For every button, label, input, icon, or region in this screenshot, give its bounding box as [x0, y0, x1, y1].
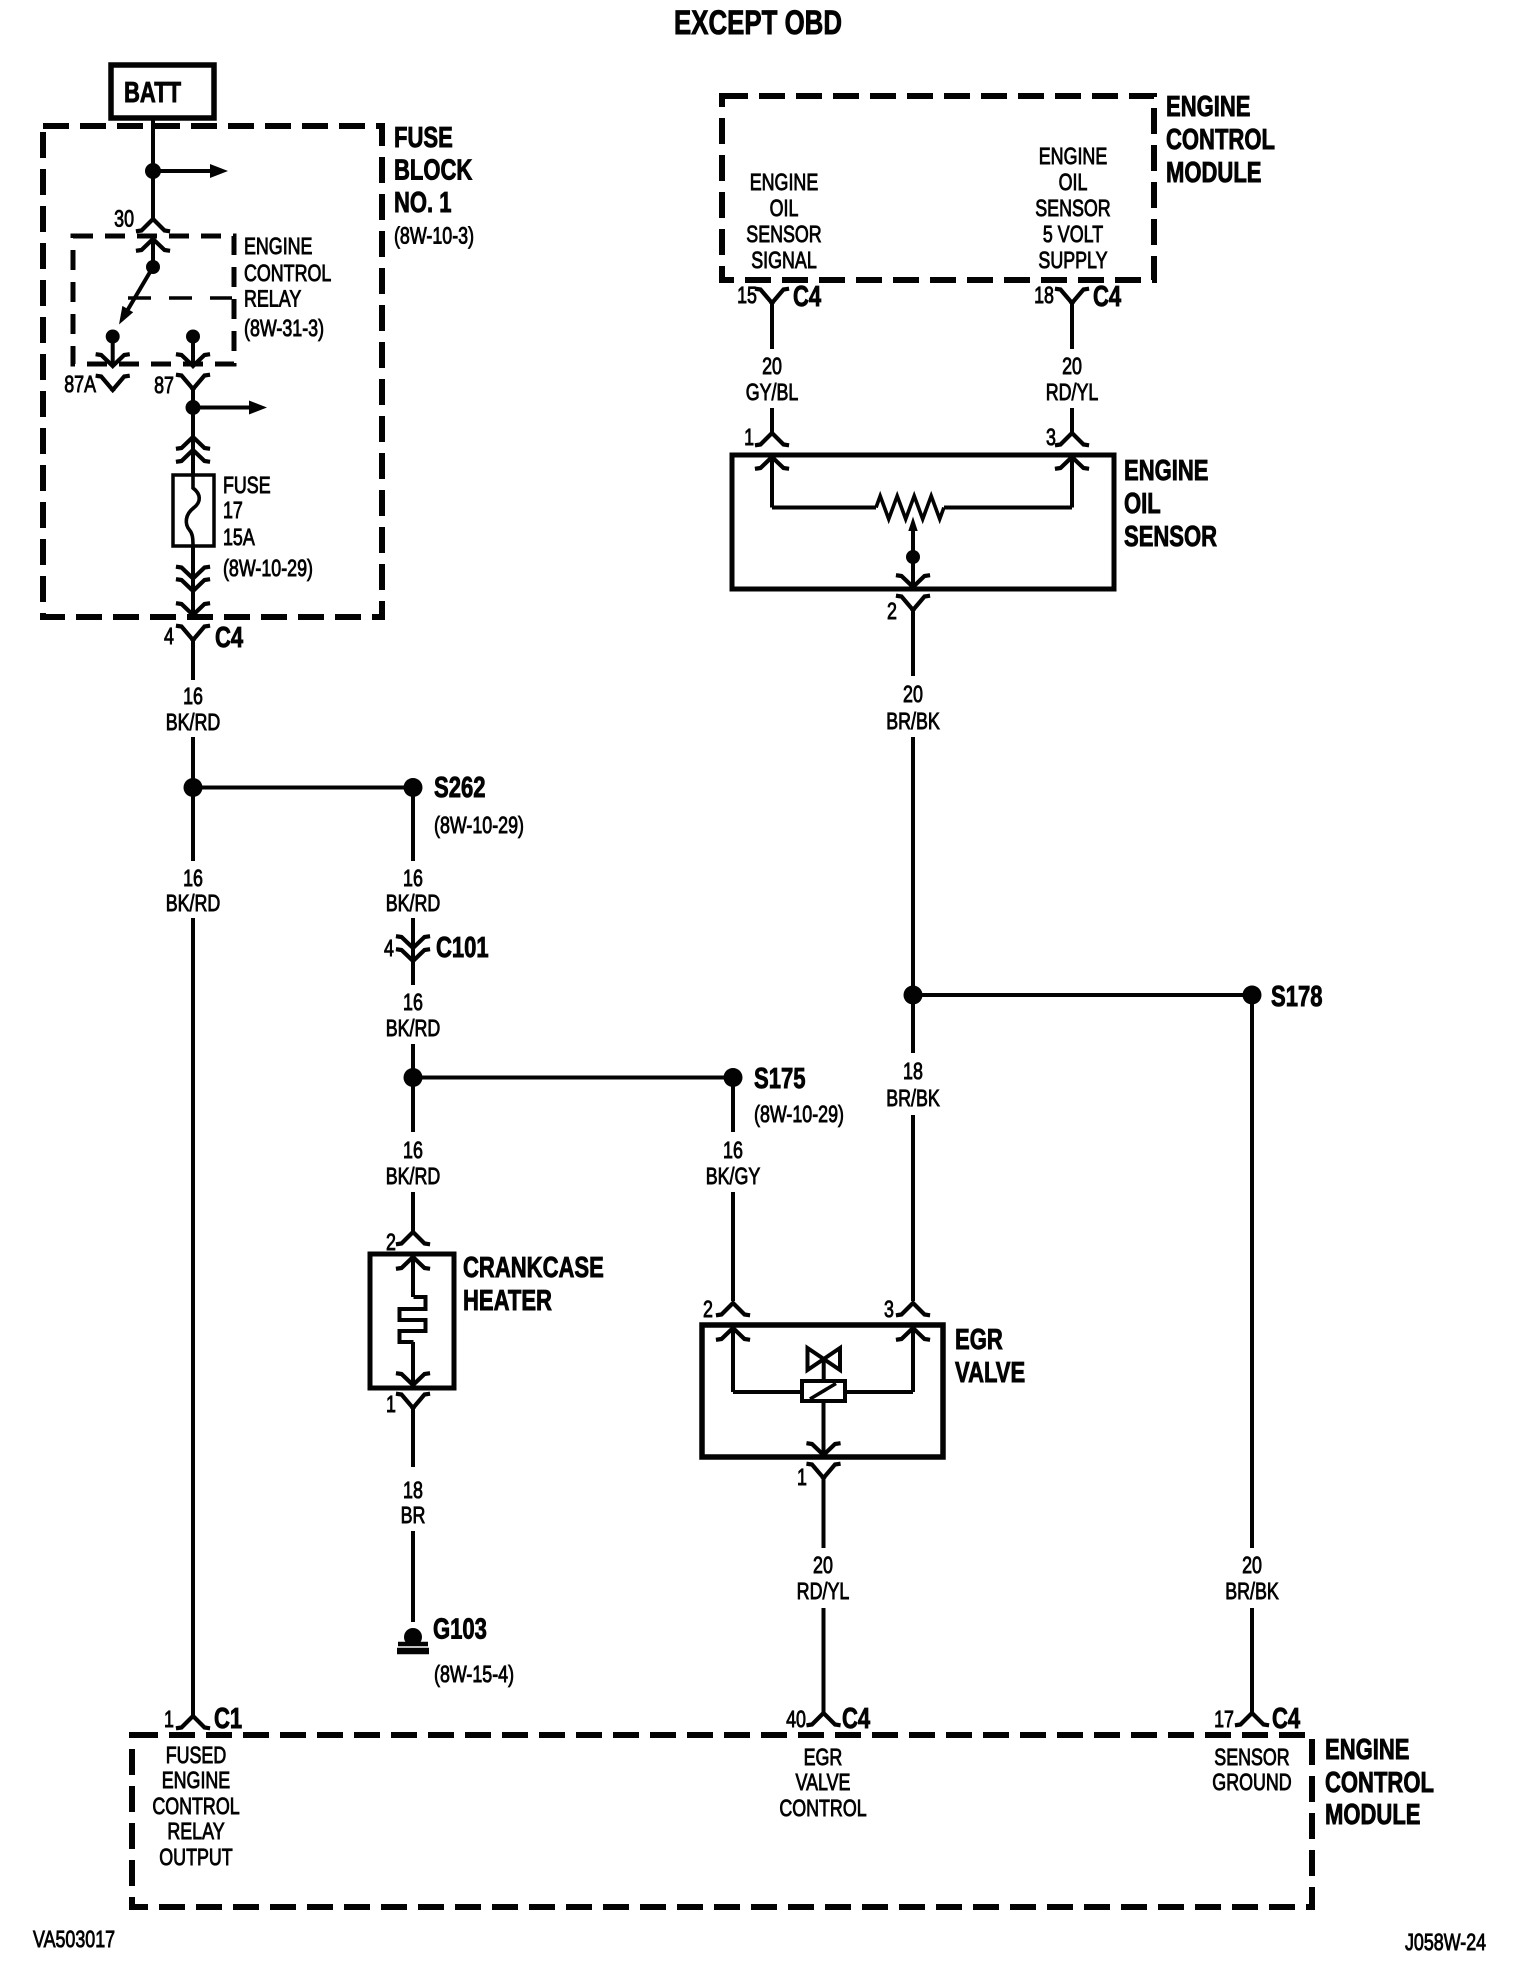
splice S262 wire: [193, 786, 413, 790]
fuse block no.1 label: [394, 122, 474, 249]
svg-text:ENGINE: ENGINE: [1124, 455, 1209, 487]
svg-text:G103: G103: [433, 1614, 487, 1646]
svg-text:GROUND: GROUND: [1212, 1769, 1291, 1795]
svg-text:C101: C101: [436, 932, 489, 964]
svg-text:OUTPUT: OUTPUT: [159, 1844, 232, 1870]
engine control module dashed box (bottom): [132, 1735, 1312, 1907]
svg-text:C1: C1: [214, 1703, 242, 1735]
svg-text:MODULE: MODULE: [1166, 157, 1262, 189]
svg-text:5 VOLT: 5 VOLT: [1043, 221, 1103, 247]
engine control module label (bottom): [1325, 1734, 1434, 1831]
svg-text:BK/RD: BK/RD: [386, 1015, 441, 1041]
svg-text:BR: BR: [401, 1502, 426, 1528]
svg-text:15: 15: [737, 282, 757, 308]
relay pin 87 wire and connector: [178, 337, 208, 390]
svg-text:SUPPLY: SUPPLY: [1038, 247, 1107, 273]
relay pin 87A wire and connector: [98, 337, 128, 391]
junction node below pin 87: [186, 400, 201, 415]
svg-text:BR/BK: BR/BK: [1225, 1578, 1279, 1604]
crankcase heater box: [370, 1254, 454, 1388]
wire fuse to connector C4: [191, 546, 195, 614]
EGR solenoid coil: [802, 1381, 845, 1401]
svg-text:S262: S262: [434, 772, 485, 804]
wire S175 to EGR pin 2: [731, 1078, 735, 1302]
wire to ground G103: [411, 1531, 415, 1622]
relay switch blade: [119, 267, 153, 325]
EGR pin 1 connector: [809, 1444, 839, 1549]
fuse 17 element: [173, 475, 214, 546]
svg-text:16: 16: [403, 1137, 423, 1163]
splice S262 node left: [184, 778, 203, 797]
svg-text:CONTROL: CONTROL: [1325, 1767, 1434, 1799]
wire label 20 BR/BK: [886, 681, 940, 734]
wire EGR pin 1 to connector C4 pin 40: [822, 1608, 826, 1713]
connector C4 pin 40: [809, 1713, 839, 1725]
svg-text:(8W-10-29): (8W-10-29): [223, 555, 313, 581]
EGR valve box: [702, 1325, 943, 1457]
wiper node: [906, 550, 920, 564]
svg-text:2: 2: [386, 1229, 396, 1255]
svg-text:BK/RD: BK/RD: [166, 709, 221, 735]
svg-text:18: 18: [903, 1058, 923, 1084]
ECM pin 15 connector C4: [757, 289, 787, 349]
wire label 20 BR/BK: [1225, 1552, 1279, 1604]
svg-text:RELAY: RELAY: [167, 1818, 224, 1844]
wire label 16 BK/RD: [166, 865, 221, 916]
svg-text:C4: C4: [793, 281, 821, 313]
wire label 20 RD/YL: [797, 1552, 850, 1604]
svg-text:C4: C4: [215, 622, 243, 654]
svg-text:ENGINE: ENGINE: [1166, 91, 1251, 123]
svg-text:J058W-24: J058W-24: [1405, 1929, 1486, 1955]
potentiometer resistor element: [876, 496, 944, 519]
svg-text:OIL: OIL: [1059, 169, 1088, 195]
svg-text:BK/RD: BK/RD: [386, 890, 441, 916]
heater pin 2 connector: [398, 1232, 428, 1297]
splice S175 node left: [404, 1068, 423, 1087]
sensor ground label: [1212, 1744, 1291, 1795]
EGR valve label: [955, 1324, 1025, 1389]
wire BATT to relay pin 30: [151, 119, 155, 220]
relay coil actuation dashed link: [128, 296, 232, 300]
svg-text:FUSED: FUSED: [166, 1742, 227, 1768]
sensor internal wire pin1 side: [772, 506, 876, 510]
svg-text:VALVE: VALVE: [955, 1357, 1025, 1389]
svg-text:EGR: EGR: [804, 1744, 843, 1770]
svg-text:VALVE: VALVE: [796, 1769, 851, 1795]
oil sensor pin 1 connector: [757, 433, 787, 508]
EGR internal wires to solenoid: [733, 1390, 913, 1394]
svg-text:SENSOR: SENSOR: [1124, 521, 1217, 553]
svg-text:ENGINE: ENGINE: [244, 233, 312, 259]
svg-text:EGR: EGR: [955, 1324, 1003, 1356]
fuse block no.1 dashed box: [43, 126, 382, 617]
svg-text:(8W-10-29): (8W-10-29): [434, 812, 524, 838]
svg-text:SENSOR: SENSOR: [1214, 1744, 1289, 1770]
svg-text:18: 18: [403, 1477, 423, 1503]
splice S262 node right: [404, 778, 423, 797]
splice S178 node right: [1243, 986, 1262, 1005]
svg-text:40: 40: [786, 1706, 806, 1732]
connector C101 double chevron: [398, 937, 428, 962]
wire ECM 15 to oil sensor pin 1: [770, 408, 774, 433]
relay pin 87 node: [186, 330, 200, 344]
wire relay 87 to fuse: [191, 389, 195, 475]
svg-text:BK/GY: BK/GY: [706, 1163, 761, 1189]
svg-text:RD/YL: RD/YL: [1046, 379, 1099, 405]
wire label 16 BK/RD: [166, 683, 221, 735]
splice S175 label: [754, 1063, 844, 1127]
feed arrow to other circuits: [153, 164, 228, 178]
sensor internal wire pin3 side: [944, 506, 1072, 510]
svg-text:ENGINE: ENGINE: [750, 169, 818, 195]
wire label 20 RD/YL: [1046, 353, 1099, 405]
connector C4 pin 17: [1237, 1713, 1267, 1725]
svg-text:4: 4: [384, 935, 394, 961]
wire label 16 BK/RD: [386, 1137, 441, 1189]
svg-text:17: 17: [1214, 1706, 1234, 1732]
svg-text:EXCEPT OBD: EXCEPT OBD: [674, 4, 842, 42]
in-line connector double chevron below fuse: [178, 567, 208, 591]
battery feed BATT box: [111, 65, 214, 118]
svg-text:(8W-31-3): (8W-31-3): [244, 315, 324, 341]
svg-text:OIL: OIL: [1124, 488, 1161, 520]
wire S262 to C101: [411, 788, 415, 986]
svg-text:20: 20: [762, 353, 782, 379]
svg-text:3: 3: [1046, 424, 1056, 450]
ECM output engine oil sensor 5 volt supply label: [1035, 143, 1110, 273]
svg-text:NO. 1: NO. 1: [394, 187, 452, 219]
wire label 16 BK/RD: [386, 865, 441, 916]
svg-text:HEATER: HEATER: [463, 1285, 552, 1317]
svg-text:C4: C4: [1093, 281, 1121, 313]
splice S175 node right: [724, 1068, 743, 1087]
splice S178 wire: [913, 993, 1252, 997]
ECM pin 18 connector C4: [1057, 289, 1087, 349]
wire label 16 BK/RD: [386, 989, 441, 1041]
svg-text:BATT: BATT: [124, 77, 181, 109]
potentiometer wiper arrow: [908, 517, 917, 587]
crankcase heater label: [463, 1252, 604, 1317]
svg-text:20: 20: [1242, 1552, 1262, 1578]
feed arrow to other circuits: [193, 401, 267, 415]
splice S178 node left: [904, 986, 923, 1005]
wire label 18 BR: [401, 1477, 426, 1528]
fused engine control relay output label: [152, 1742, 239, 1870]
wire S178 to EGR pin 3: [911, 995, 915, 1301]
svg-text:16: 16: [403, 989, 423, 1015]
oil sensor pin 3 connector: [1057, 433, 1087, 508]
svg-text:CONTROL: CONTROL: [152, 1793, 239, 1819]
svg-text:CONTROL: CONTROL: [779, 1795, 866, 1821]
svg-text:C4: C4: [842, 1703, 870, 1735]
svg-text:3: 3: [884, 1296, 894, 1322]
EGR pin 2 connector: [718, 1303, 748, 1392]
wire C4 to splice S262: [191, 737, 195, 788]
splice S262 label: [434, 772, 524, 838]
svg-text:2: 2: [703, 1296, 713, 1322]
svg-text:4: 4: [164, 623, 174, 649]
svg-text:15A: 15A: [223, 524, 255, 550]
svg-text:(8W-10-29): (8W-10-29): [754, 1101, 844, 1127]
svg-text:BR/BK: BR/BK: [886, 708, 940, 734]
svg-text:BLOCK: BLOCK: [394, 155, 472, 187]
svg-text:C4: C4: [1272, 1703, 1300, 1735]
svg-text:1: 1: [164, 1706, 174, 1732]
wire S175 to crankcase heater: [411, 1078, 415, 1233]
engine oil sensor label: [1124, 455, 1217, 553]
wire S262 to connector C1: [191, 788, 195, 1717]
engine control module label (top): [1166, 91, 1275, 189]
wire label 20 GY/BL: [746, 353, 799, 405]
heater element: [400, 1297, 426, 1342]
svg-text:FUSE: FUSE: [223, 472, 271, 498]
svg-text:BK/RD: BK/RD: [166, 890, 221, 916]
wire solenoid to EGR pin 1: [822, 1401, 826, 1454]
svg-text:BK/RD: BK/RD: [386, 1163, 441, 1189]
svg-text:OIL: OIL: [770, 195, 799, 221]
oil sensor pin 2 connector: [898, 576, 928, 677]
svg-text:16: 16: [403, 865, 423, 891]
svg-text:ENGINE: ENGINE: [162, 1767, 230, 1793]
svg-text:16: 16: [183, 683, 203, 709]
ground G103: [397, 1628, 429, 1651]
svg-text:87A: 87A: [64, 371, 96, 397]
svg-text:1: 1: [386, 1391, 396, 1417]
wire heater element to pin 1: [411, 1342, 415, 1384]
junction node on BATT feed: [145, 163, 161, 179]
splice S175 wire: [413, 1076, 733, 1080]
svg-text:17: 17: [223, 497, 243, 523]
wire label 16 BK/GY: [706, 1137, 761, 1189]
EGR valve control label: [779, 1744, 866, 1821]
svg-text:RD/YL: RD/YL: [797, 1578, 850, 1604]
svg-text:(8W-15-4): (8W-15-4): [434, 1661, 514, 1687]
svg-text:87: 87: [154, 372, 174, 398]
svg-text:1: 1: [744, 424, 754, 450]
svg-text:MODULE: MODULE: [1325, 1799, 1421, 1831]
svg-text:SENSOR: SENSOR: [1035, 195, 1110, 221]
svg-text:16: 16: [183, 865, 203, 891]
svg-text:GY/BL: GY/BL: [746, 379, 799, 405]
svg-text:BR/BK: BR/BK: [886, 1085, 940, 1111]
fuse 17 label: [223, 472, 313, 581]
svg-text:S178: S178: [1271, 981, 1322, 1013]
engine control relay label: [244, 233, 331, 341]
svg-text:30: 30: [114, 206, 134, 232]
svg-text:2: 2: [887, 598, 897, 624]
svg-text:S175: S175: [754, 1063, 805, 1095]
svg-text:(8W-10-3): (8W-10-3): [394, 223, 474, 249]
ground G103 label: [433, 1614, 514, 1688]
svg-text:CRANKCASE: CRANKCASE: [463, 1252, 604, 1284]
svg-text:ENGINE: ENGINE: [1039, 143, 1107, 169]
svg-text:ENGINE: ENGINE: [1325, 1734, 1410, 1766]
svg-text:18: 18: [1034, 282, 1054, 308]
engine control module dashed box (top): [722, 96, 1154, 280]
engine control relay dashed box: [73, 236, 234, 364]
relay pin 87A node: [106, 330, 120, 344]
svg-text:20: 20: [903, 681, 923, 707]
connector C4 pin 4 (fuse block exit): [178, 604, 208, 681]
wire C101 to splice S175: [411, 1044, 415, 1078]
wire oil sensor to splice S178: [911, 737, 915, 995]
svg-text:16: 16: [723, 1137, 743, 1163]
EGR butterfly valve symbol: [808, 1348, 841, 1381]
engine oil sensor box: [732, 455, 1114, 589]
svg-text:20: 20: [813, 1552, 833, 1578]
in-line connector double chevron above fuse: [178, 437, 208, 462]
wire ECM 18 to oil sensor pin 3: [1070, 408, 1074, 433]
connector C1 pin 1: [178, 1716, 208, 1728]
svg-text:FUSE: FUSE: [394, 122, 453, 154]
svg-text:VA503017: VA503017: [33, 1926, 115, 1952]
svg-text:20: 20: [1062, 353, 1082, 379]
svg-text:CONTROL: CONTROL: [1166, 124, 1275, 156]
svg-text:SENSOR: SENSOR: [746, 221, 821, 247]
relay pin 30 connector: [138, 219, 168, 267]
ECM output engine oil sensor signal label: [746, 169, 821, 273]
wire S178 to connector C4 pin 17: [1250, 995, 1254, 1713]
svg-text:SIGNAL: SIGNAL: [751, 247, 817, 273]
relay common node: [146, 260, 160, 274]
wire label 18 BR/BK: [886, 1058, 940, 1111]
heater pin 1 connector: [398, 1374, 428, 1468]
svg-text:RELAY: RELAY: [244, 286, 301, 312]
svg-text:CONTROL: CONTROL: [244, 260, 331, 286]
svg-text:1: 1: [797, 1464, 807, 1490]
EGR pin 3 connector: [898, 1303, 928, 1392]
